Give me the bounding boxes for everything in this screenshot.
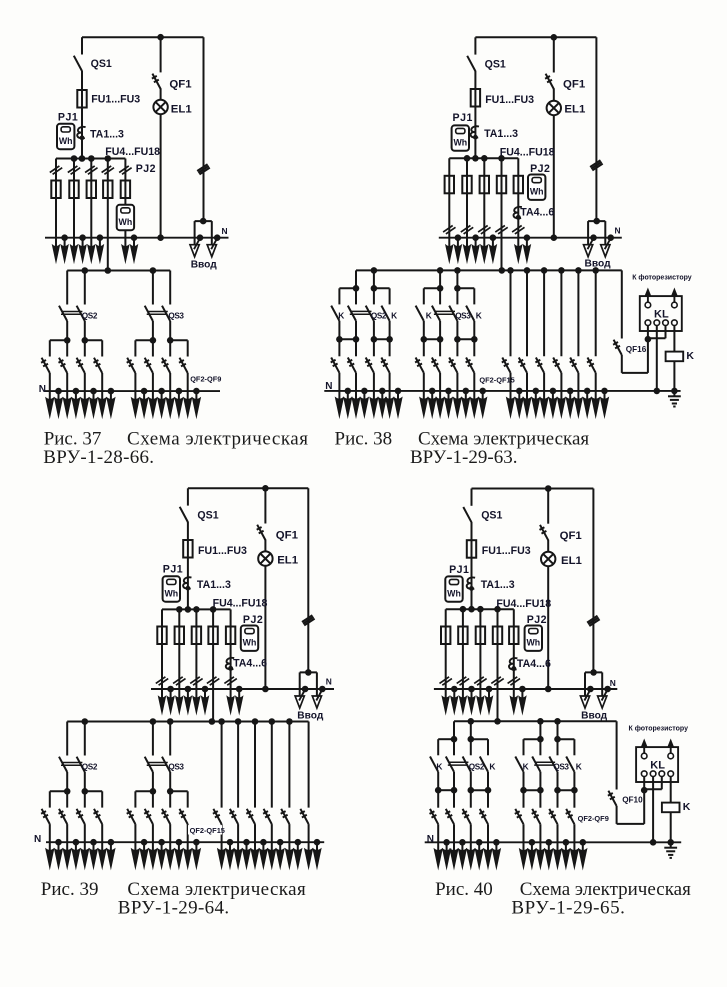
feeder bus (fig37) [67, 270, 170, 272]
load arrows [152, 391, 154, 400]
svg-text:QF1: QF1 [560, 530, 583, 542]
direct feeder columns QF2-QF15 (fig38) [507, 267, 514, 274]
top feed wire [475, 36, 596, 38]
load arrows branch 3 (fig39) [195, 689, 197, 699]
group fuse branch 3 (fig39) [195, 609, 197, 689]
load arrows branch 5 (fig37) [124, 238, 126, 248]
QS3 pole tails [152, 321, 154, 340]
load arrows [523, 842, 525, 851]
load arrows branch 2 (fig39) [178, 689, 180, 699]
KL pin2 wire to N bus [656, 326, 658, 391]
group fuse branch 1 (fig37) [55, 159, 57, 238]
pair ties [424, 338, 440, 340]
feeder bus (fig40) [454, 720, 617, 722]
ввод phase arrow (hollow) [580, 696, 589, 708]
label QF2-QF15 (fig39) [188, 825, 222, 834]
QS2 linkage [448, 761, 468, 763]
QS2 linkage [350, 310, 371, 312]
QS2 linkage [62, 311, 83, 313]
breaker QF col 558 (fig40) [557, 790, 559, 808]
load arrows [288, 842, 290, 851]
svg-text:К фоторезистору: К фоторезистору [629, 725, 689, 732]
group fuse branch 5 (fig39) [230, 609, 232, 689]
svg-text:N: N [615, 226, 621, 236]
svg-text:QS2: QS2 [82, 762, 98, 771]
load arrows [595, 391, 597, 400]
N bus (fig40) [434, 688, 617, 690]
svg-text:QS2: QS2 [469, 763, 485, 772]
svg-text:N: N [39, 384, 46, 395]
fuse FU1...FU3 (fig39) [183, 540, 192, 558]
breaker QF1 (fig38) [553, 37, 555, 72]
breaker QF col 488 (fig40) [487, 790, 489, 808]
contactor K contact left (QS2 group) [338, 288, 340, 304]
pair ties [438, 789, 454, 791]
svg-text:Ввод: Ввод [191, 259, 218, 270]
ввод box [195, 220, 212, 222]
ground symbol [670, 842, 672, 847]
svg-text:N: N [326, 677, 332, 687]
switch QS3 poles [152, 271, 154, 305]
breaker QF col 85 (fig39) [84, 791, 86, 807]
QS2 arms [50, 339, 67, 341]
ввод N tail [587, 686, 594, 693]
group fuse bus (fig38) [449, 157, 518, 159]
svg-text:K: K [683, 801, 691, 813]
svg-text:EL1: EL1 [564, 104, 586, 116]
lamp EL1 (fig40) [547, 540, 549, 552]
svg-text:QS1: QS1 [91, 58, 112, 70]
breaker QF col 424 (fig38) [423, 339, 425, 356]
breaker QF col 170 (fig39) [169, 791, 171, 807]
KL bottom terminals [645, 320, 651, 326]
load arrows [439, 391, 441, 400]
load arrows [373, 391, 375, 400]
top feed wire [188, 487, 308, 489]
feed from upper section [494, 718, 501, 725]
svg-text:FU1...FU3: FU1...FU3 [482, 545, 531, 557]
load arrows [470, 842, 472, 851]
svg-text:QF2-QF15: QF2-QF15 [190, 826, 225, 835]
switch QS1 (fig40) [471, 489, 473, 506]
ввод box [585, 671, 602, 673]
N bus (fig37) [45, 237, 229, 239]
breaker QF (group QS3) col 188 [187, 340, 189, 356]
breaker QF col 471 (fig40) [470, 790, 472, 808]
ввод phase arrow (hollow) [312, 696, 321, 708]
load arrows branch 2 (fig37) [73, 238, 75, 248]
ввод N tail [214, 234, 221, 241]
group fuse branch 2 (fig39) [178, 609, 180, 689]
ввод N tail [302, 686, 309, 693]
load arrows [169, 391, 171, 400]
load arrows branch 2 (fig38) [466, 238, 468, 248]
svg-text:K: K [576, 761, 582, 771]
load arrows [152, 842, 154, 851]
load arrows branch 3 (fig40) [479, 689, 481, 699]
load arrows [557, 842, 559, 851]
breaker QF col 440 (fig38) [439, 339, 441, 356]
ввод phase arrow (hollow) [601, 245, 610, 257]
N bus (fig39) [151, 688, 334, 690]
load arrows branch 1 (fig40) [445, 689, 447, 699]
junction top/QF1 [545, 485, 552, 492]
group fuse bus (fig40) [446, 608, 514, 610]
group fuse branch 4 (fig39) [212, 609, 214, 721]
fuse FU1...FU3 (fig38) [471, 89, 480, 107]
service line (fig37) [203, 37, 205, 221]
load arrows [355, 391, 357, 400]
svg-text:FU4...FU18: FU4...FU18 [500, 147, 555, 159]
svg-text:QS1: QS1 [485, 58, 506, 70]
meter PJ1 (Wh) (fig40) [445, 576, 462, 601]
svg-text:Wh: Wh [119, 217, 133, 227]
QS2 pole tails [66, 772, 68, 791]
switch QS2 poles [66, 722, 68, 756]
breaker QF col 135 (fig39) [134, 791, 136, 807]
load arrows [543, 391, 545, 400]
group fuse branch 2 (fig40) [462, 609, 464, 689]
svg-text:ВРУ-1-29-65.: ВРУ-1-29-65. [511, 898, 625, 919]
QS3 linkage [147, 762, 168, 764]
svg-text:QF10: QF10 [622, 795, 643, 804]
breaker QF col 574 (fig40) [573, 790, 575, 808]
load arrows [221, 842, 223, 851]
current transformer TA4...6 (fig40) [509, 658, 517, 669]
breaker QF col 540 (fig40) [539, 790, 541, 808]
N bus bottom (fig37) [45, 390, 220, 392]
lamp EL1 (fig38) [553, 89, 555, 101]
breaker QF (group QS3) col 135 [134, 340, 136, 356]
svg-text:ВРУ-1-29-64.: ВРУ-1-29-64. [118, 898, 230, 919]
QS2 linkage [62, 762, 83, 764]
breaker QF1 (fig40) [547, 489, 549, 524]
breaker QF col 390 (fig38) [389, 339, 391, 356]
load arrows [84, 842, 86, 851]
feeder bus (fig38) [356, 269, 622, 271]
svg-text:QF2-QF9: QF2-QF9 [578, 814, 609, 823]
ввод N tail [197, 234, 204, 241]
svg-text:TA1...3: TA1...3 [197, 579, 231, 591]
svg-text:Ввод: Ввод [297, 711, 324, 722]
load arrows [187, 391, 189, 400]
breaker QF col 524 (fig40) [523, 790, 525, 808]
load arrows [526, 391, 528, 400]
load arrows [49, 842, 51, 851]
KL pin2 wire to N bus [652, 777, 654, 843]
svg-text:PJ2: PJ2 [527, 614, 547, 626]
svg-text:EL1: EL1 [171, 103, 193, 115]
breaker QF col 374 (fig38) [373, 339, 375, 356]
svg-text:QS3: QS3 [168, 311, 184, 320]
load arrows [308, 842, 310, 851]
fuse FU1...FU3 (fig37) [77, 90, 86, 108]
svg-text:Рис. 38: Рис. 38 [335, 428, 393, 449]
load arrows branch 3 (fig38) [483, 238, 485, 248]
svg-text:QS2: QS2 [82, 311, 98, 320]
svg-text:Wh: Wh [526, 638, 540, 648]
svg-text:N: N [222, 226, 228, 236]
breaker QF (group QS2) col 50 [49, 340, 51, 356]
lamp EL1 (fig39) [264, 540, 266, 552]
breaker QF1 (fig39) [264, 488, 266, 523]
svg-text:N: N [427, 834, 434, 845]
load arrows [573, 842, 575, 851]
switch QS2 poles [66, 271, 68, 305]
load arrows [473, 391, 475, 400]
junction top/QF1 [157, 34, 164, 41]
breaker QF col 153 (fig39) [152, 791, 154, 807]
junction top/QF1 [262, 485, 269, 492]
contactor K contacts + switch QS2 [437, 739, 439, 755]
breaker QF col 454 (fig40) [453, 790, 455, 808]
load arrows [453, 842, 455, 851]
svg-text:Wh: Wh [59, 136, 73, 146]
load arrows [101, 391, 103, 400]
pair ties [524, 789, 541, 791]
switch QS1 (fig37) [81, 37, 83, 54]
switch QS3 poles [152, 722, 154, 756]
svg-text:ВРУ-1-29-63.: ВРУ-1-29-63. [410, 447, 517, 468]
meter PJ2 (Wh) on branch 5 (fig37) [117, 205, 134, 230]
QS3 arms [135, 790, 153, 792]
svg-text:QF1: QF1 [276, 530, 299, 542]
load arrows [49, 391, 51, 400]
ввод N tail [319, 686, 326, 693]
load arrows [134, 842, 136, 851]
svg-text:EL1: EL1 [277, 555, 299, 567]
svg-text:FU4...FU18: FU4...FU18 [213, 598, 268, 610]
QS3 linkage [147, 311, 168, 313]
current transformer TA1...3 (fig40) [467, 577, 475, 588]
svg-text:PJ2: PJ2 [530, 163, 550, 175]
svg-text:PJ1: PJ1 [449, 564, 469, 576]
svg-text:PJ1: PJ1 [163, 564, 183, 576]
pair ties [339, 338, 356, 340]
arms to K contactor columns [339, 287, 356, 289]
contactor K contact right (QS2 group) [389, 288, 391, 304]
breaker QF16/QF10 on bus tail [621, 270, 623, 338]
current transformer TA1...3 (fig37) [77, 127, 85, 138]
svg-text:N: N [34, 834, 41, 845]
load arrows [187, 842, 189, 851]
svg-text:Wh: Wh [164, 589, 178, 599]
load arrows [101, 842, 103, 851]
contactor K contacts + switch QS3 [523, 739, 525, 755]
breaker QF (group QS2) col 67 [66, 340, 68, 356]
svg-text:Wh: Wh [447, 589, 461, 599]
svg-text:FU1...FU3: FU1...FU3 [91, 94, 140, 106]
breaker QF col 474 (fig38) [473, 339, 475, 356]
load arrows [66, 842, 68, 851]
QS3 pole drops [437, 267, 444, 274]
load arrows [134, 391, 136, 400]
svg-text:QS1: QS1 [197, 509, 218, 521]
load arrows [577, 391, 579, 400]
switch QS1 (fig39) [187, 488, 189, 505]
group fuse branch 4 (fig38) [501, 158, 503, 270]
feed from upper section [499, 267, 506, 274]
load arrows [271, 842, 273, 851]
svg-text:KL: KL [650, 760, 665, 772]
svg-text:N: N [610, 678, 616, 688]
svg-text:TA1...3: TA1...3 [90, 128, 124, 140]
svg-text:QS3: QS3 [553, 763, 569, 772]
svg-text:K: K [489, 761, 495, 771]
service disconnect slash [590, 160, 600, 167]
group fuse branch 3 (fig37) [90, 159, 92, 238]
svg-text:QF1: QF1 [563, 79, 586, 91]
load arrows branch 5 (fig40) [513, 689, 515, 699]
contactor coil K [673, 326, 675, 391]
junction top/QF1 [551, 34, 558, 41]
load arrows [539, 842, 541, 851]
load arrows [84, 391, 86, 400]
svg-text:PJ2: PJ2 [243, 614, 263, 626]
KL pin1 wire [643, 777, 645, 824]
load arrows branch 5 (fig39) [230, 689, 232, 699]
QS3 linkage [435, 310, 456, 312]
svg-text:Wh: Wh [453, 138, 467, 148]
load arrows [423, 391, 425, 400]
svg-text:TA1...3: TA1...3 [484, 128, 518, 140]
N bus (fig38) [439, 237, 622, 239]
photoresistor relay KL box [640, 296, 682, 331]
breaker QF (group QS2) col 85 [84, 340, 86, 356]
QS3 linkage [535, 761, 555, 763]
lamp EL1 (fig37) [160, 88, 162, 99]
ввод phase arrow (hollow) [584, 245, 593, 257]
svg-text:Ввод: Ввод [581, 711, 608, 722]
svg-text:QF2-QF9: QF2-QF9 [190, 374, 221, 383]
KL pin3 tie to pin1 [665, 326, 667, 339]
ввод N tail [604, 686, 611, 693]
breaker QF col 188 (fig39) [187, 791, 189, 807]
N bus bottom (fig40) [425, 841, 682, 843]
current transformer TA4...6 (fig39) [226, 658, 234, 669]
group fuse branch 4 (fig37) [107, 159, 109, 271]
svg-text:K: K [426, 310, 432, 320]
svg-text:N: N [325, 381, 332, 392]
load arrows branch 1 (fig37) [55, 238, 57, 248]
svg-text:QS2: QS2 [371, 312, 387, 321]
svg-text:QF2-QF15: QF2-QF15 [479, 375, 514, 384]
KL pin3 tie to pin1 [661, 777, 663, 790]
load arrows branch 1 (fig38) [448, 238, 450, 248]
QS2 pole tails [66, 321, 68, 340]
svg-text:Wh: Wh [243, 638, 257, 648]
svg-text:KL: KL [654, 309, 669, 321]
breaker QF col 102 (fig39) [101, 791, 103, 807]
service line (fig38) [595, 37, 597, 221]
ввод phase arrow (hollow) [598, 696, 607, 708]
ввод box [588, 220, 605, 222]
svg-text:PJ1: PJ1 [58, 112, 78, 124]
current transformer TA4...6 (fig38) [514, 207, 522, 218]
breaker QF col 339 (fig38) [338, 339, 340, 356]
group fuse bus (fig39) [162, 608, 231, 610]
svg-text:FU1...FU3: FU1...FU3 [198, 545, 247, 557]
meter PJ1 (Wh) (fig37) [57, 124, 74, 149]
service disconnect slash [302, 615, 312, 622]
breaker QF col 50 (fig39) [49, 791, 51, 807]
service disconnect slash [197, 164, 207, 171]
load arrows [437, 842, 439, 851]
contactor K contact left (QS3 group) [423, 288, 425, 304]
service line (fig40) [592, 489, 594, 673]
svg-text:PJ1: PJ1 [453, 112, 473, 124]
QS2 arms [50, 790, 67, 792]
svg-text:Wh: Wh [530, 187, 544, 197]
svg-text:QF1: QF1 [169, 78, 192, 90]
svg-text:EL1: EL1 [561, 555, 583, 567]
svg-text:К фоторезистору: К фоторезистору [632, 274, 692, 281]
svg-text:K: K [436, 761, 442, 771]
breaker QF (group QS3) col 170 [169, 340, 171, 356]
svg-text:TA4...6: TA4...6 [233, 658, 267, 670]
switch QS1 (fig38) [474, 37, 476, 54]
group fuse branch 5 (fig40) [513, 609, 515, 689]
N bus bottom (fig38) [324, 390, 680, 392]
load arrows branch 1 (fig39) [161, 689, 163, 699]
load arrows [487, 842, 489, 851]
load arrows branch 2 (fig40) [462, 689, 464, 699]
meter PJ2 (Wh) (fig39) [241, 626, 258, 651]
ввод phase arrow (hollow) [190, 245, 199, 257]
load arrows [169, 842, 171, 851]
QS2 pole drops [355, 270, 357, 288]
photoresistor relay KL box [636, 747, 678, 782]
QS3 pole tails [152, 772, 154, 791]
load arrows branch 5 (fig38) [517, 238, 519, 248]
breaker QF col 457 (fig38) [456, 339, 458, 356]
top feed wire [472, 488, 594, 490]
svg-text:Рис. 40: Рис. 40 [435, 879, 493, 900]
ground symbol [673, 391, 675, 396]
service line (fig39) [307, 488, 309, 672]
load arrows [338, 391, 340, 400]
breaker QF1 (fig37) [160, 37, 162, 72]
breaker QF col 356 (fig38) [355, 339, 357, 356]
svg-text:TA4...6: TA4...6 [517, 658, 551, 670]
svg-text:TA1...3: TA1...3 [481, 579, 515, 591]
ввод phase arrow (hollow) [295, 696, 304, 708]
top feed wire [82, 36, 204, 38]
breaker QF col 67 (fig39) [66, 791, 68, 807]
ввод N tail [590, 234, 597, 241]
direct feeder columns QF2-QF15 (fig39) [218, 718, 225, 725]
load arrows [389, 391, 391, 400]
ввод box [300, 671, 317, 673]
breaker QF16/QF10 on bus tail [616, 721, 618, 789]
KL bottom terminals [641, 771, 647, 777]
contactor K contact right (QS3 group) [473, 288, 475, 304]
group fuse branch 4 (fig40) [497, 609, 499, 721]
KL pin1 wire [647, 326, 649, 373]
svg-text:FU4...FU18: FU4...FU18 [105, 146, 160, 158]
QS3 pole drops (fig40) [537, 718, 544, 725]
QS3 arms [135, 339, 153, 341]
load arrows [66, 391, 68, 400]
arms to K contactor columns [438, 738, 454, 740]
svg-text:K: K [391, 310, 397, 320]
svg-text:PJ2: PJ2 [136, 163, 156, 175]
ввод N tail [607, 234, 614, 241]
meter PJ2 (Wh) (fig38) [528, 175, 545, 200]
group fuse branch 3 (fig38) [483, 158, 485, 237]
svg-text:QS3: QS3 [455, 312, 471, 321]
svg-text:QS3: QS3 [168, 762, 184, 771]
